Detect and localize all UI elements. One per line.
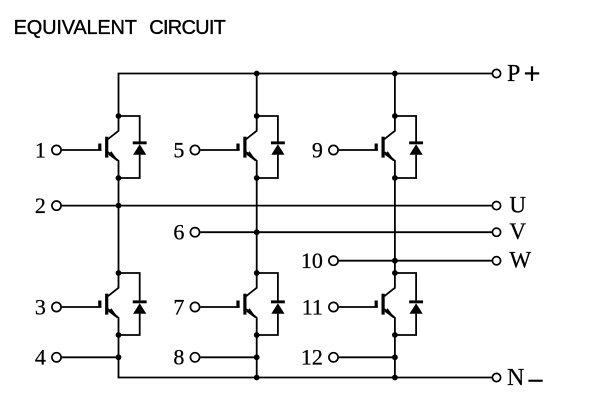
pin 4 xyxy=(35,345,61,370)
transistor Q4 (IGBT) xyxy=(62,273,119,335)
svg-text:7: 7 xyxy=(173,294,184,319)
transistor Q5 (IGBT) xyxy=(200,273,256,335)
svg-text:8: 8 xyxy=(173,345,184,370)
wire pin 8 lead xyxy=(200,356,256,358)
svg-text:2: 2 xyxy=(35,193,46,218)
node junction pin 12 / leg column xyxy=(392,354,398,360)
terminal W xyxy=(492,248,531,273)
node Q2 collector junction xyxy=(254,113,260,119)
wire pin 12 lead xyxy=(339,356,395,358)
node junction top rail / leg3 xyxy=(392,71,398,77)
node junction top rail / leg2 xyxy=(254,71,260,77)
svg-text:5: 5 xyxy=(173,137,184,162)
node Q1 collector junction xyxy=(116,113,122,119)
pin 12 xyxy=(301,345,338,370)
diode D5 (anti-parallel) xyxy=(257,273,285,335)
transistor Q2 (IGBT) xyxy=(200,116,256,178)
wire leg3 column: upper emitter to lower collector xyxy=(394,178,396,273)
diode D1 (anti-parallel) xyxy=(119,116,147,178)
transistor Q3 (IGBT) xyxy=(339,116,395,178)
svg-text:10: 10 xyxy=(301,248,323,273)
wire leg3 column: rail to upper collector xyxy=(394,74,396,117)
node Q6 collector junction xyxy=(392,270,398,276)
node junction bottom rail / leg3 xyxy=(392,375,398,381)
node Q5 collector junction xyxy=(254,270,260,276)
terminal P+ xyxy=(492,61,539,87)
node junction V / leg column xyxy=(254,229,260,235)
pin 6 xyxy=(173,220,199,245)
pin 5 (gate) xyxy=(173,137,199,162)
node junction pin 8 / leg column xyxy=(254,354,260,360)
terminal N- xyxy=(492,365,542,391)
wire phase V line (pin 6 to terminal V) xyxy=(200,231,492,233)
svg-text:EQUIVALENTCIRCUIT: EQUIVALENTCIRCUIT xyxy=(14,17,226,39)
svg-text:4: 4 xyxy=(35,345,46,370)
diode D6 (anti-parallel) xyxy=(395,273,423,335)
diode D2 (anti-parallel) xyxy=(257,116,285,178)
terminal U xyxy=(492,193,526,218)
svg-text:U: U xyxy=(509,193,526,218)
node Q3 emitter junction xyxy=(392,175,398,181)
pin 1 (gate) xyxy=(35,137,61,162)
svg-text:P: P xyxy=(507,61,520,87)
transistor Q1 (IGBT) xyxy=(62,116,119,178)
wire P+ top rail xyxy=(118,73,492,75)
node junction pin 4 / leg column xyxy=(116,354,122,360)
wire N- bottom rail xyxy=(118,377,492,379)
wire leg1 column: lower emitter to bottom rail xyxy=(118,335,120,378)
transistor Q6 (IGBT) xyxy=(339,273,395,335)
node Q6 emitter junction xyxy=(392,332,398,338)
pin 7 (gate) xyxy=(173,294,199,319)
wire pin 4 lead xyxy=(62,356,119,358)
pin 11 (gate) xyxy=(302,294,338,319)
wire leg2 column: upper emitter to lower collector xyxy=(256,178,258,273)
svg-text:12: 12 xyxy=(301,345,323,370)
node Q2 emitter junction xyxy=(254,175,260,181)
svg-text:W: W xyxy=(509,248,531,273)
pin 8 xyxy=(173,345,199,370)
svg-text:9: 9 xyxy=(312,137,323,162)
pin 9 (gate) xyxy=(312,137,338,162)
node Q4 emitter junction xyxy=(116,332,122,338)
diode D3 (anti-parallel) xyxy=(395,116,423,178)
wire leg2 column: lower emitter to bottom rail xyxy=(256,335,258,378)
node junction U / leg column xyxy=(116,203,122,209)
node Q1 emitter junction xyxy=(116,175,122,181)
wire leg1 column: rail to upper collector xyxy=(118,74,120,117)
svg-text:N: N xyxy=(507,365,524,391)
wire leg2 column: rail to upper collector xyxy=(256,74,258,117)
wire phase W line (pin 10 to terminal W) xyxy=(339,260,492,262)
diode D4 (anti-parallel) xyxy=(119,273,147,335)
pin 2 xyxy=(35,193,61,218)
svg-text:3: 3 xyxy=(35,294,46,319)
pin 3 (gate) xyxy=(35,294,61,319)
svg-text:6: 6 xyxy=(173,220,184,245)
node Q3 collector junction xyxy=(392,113,398,119)
terminal V xyxy=(492,219,526,244)
wire phase U line (pin 2 to terminal U) xyxy=(62,205,492,207)
wire leg3 column: lower emitter to bottom rail xyxy=(394,335,396,378)
svg-text:11: 11 xyxy=(302,294,323,319)
node junction W / leg column xyxy=(392,258,398,264)
node Q4 collector junction xyxy=(116,270,122,276)
node junction bottom rail / leg2 xyxy=(254,375,260,381)
pin 10 xyxy=(301,248,338,273)
svg-text:1: 1 xyxy=(35,137,46,162)
svg-text:V: V xyxy=(509,219,526,244)
wire leg1 column: upper emitter to lower collector xyxy=(118,178,120,273)
node Q5 emitter junction xyxy=(254,332,260,338)
